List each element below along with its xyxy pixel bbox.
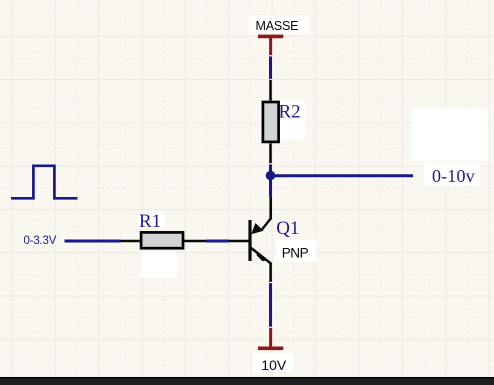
pin R2 bottom lead (269, 144, 272, 164)
pin Q1 base lead (229, 240, 249, 243)
pin R1 left lead (121, 240, 140, 243)
svg-text:10V: 10V (261, 357, 287, 373)
svg-text:PNP: PNP (282, 245, 309, 260)
transistor Q1 (250, 218, 271, 263)
svg-text:0-10v: 0-10v (432, 166, 475, 186)
label box 0-10v (424, 163, 480, 186)
svg-text:R1: R1 (139, 211, 161, 232)
wire Q1 collector down (269, 263, 272, 282)
power symbol 10V (258, 328, 283, 348)
wire input to R1 (65, 240, 121, 243)
label box MASSE (250, 16, 310, 34)
pulse waveform annotation (11, 166, 78, 199)
wire R1 to base (206, 240, 229, 243)
label box 10V (253, 353, 293, 372)
svg-text:0-3.3V: 0-3.3V (24, 235, 57, 247)
svg-text:R2: R2 (279, 102, 301, 123)
label box R1 (138, 213, 166, 229)
pin R2 top lead (269, 80, 272, 101)
label box PNP (276, 240, 316, 262)
label box R2 (279, 100, 306, 140)
wire junction to Q1 emitter (269, 176, 272, 197)
empty label box right edge (412, 109, 489, 161)
wire collector to 10V (269, 283, 272, 327)
pin Q1 emitter lead (269, 197, 272, 220)
wire output to 0-10v (271, 174, 414, 177)
junction node (266, 171, 276, 181)
power symbol MASSE (258, 36, 283, 55)
pin R1 right lead (184, 240, 206, 243)
svg-text:MASSE: MASSE (256, 19, 299, 33)
svg-text:Q1: Q1 (276, 218, 299, 239)
wire MASSE to R2 (269, 56, 272, 79)
wire lead to junction (269, 164, 272, 176)
resistor R2 (263, 102, 279, 142)
bottom window bar (0, 377, 494, 385)
resistor R1 (141, 232, 183, 248)
empty value box R1 (141, 252, 177, 278)
